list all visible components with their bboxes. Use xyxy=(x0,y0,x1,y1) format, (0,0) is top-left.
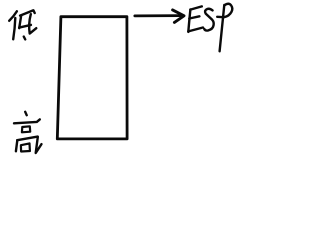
rectangle body xyxy=(57,17,127,139)
arrow shaft wire xyxy=(135,14,180,17)
label 高 (high) right hook stroke xyxy=(36,137,42,153)
label 高 (high) top dot xyxy=(25,112,27,115)
arrow head xyxy=(173,10,184,23)
label 低 (low) bottom dot of 氐 xyxy=(24,37,25,40)
label 低 (low) curved hook stroke of 氐 xyxy=(29,14,36,33)
text ESP letter P xyxy=(217,4,232,52)
text ESP letter S xyxy=(204,9,214,31)
label 低 (low) short vertical of 氐 xyxy=(19,16,21,29)
label 高 (high) outer box top stroke xyxy=(17,137,38,141)
text ESP letter E xyxy=(188,6,203,32)
label 高 (high) small mouth box xyxy=(22,126,30,132)
label 低 (low) top slanted stroke of 氐 xyxy=(20,10,35,15)
label 低 (low) middle horizontal of 氐 xyxy=(19,25,31,28)
label 高 (high) top horizontal stroke xyxy=(14,119,40,123)
label 高 (high) outer box left vertical xyxy=(16,140,17,151)
label 低 (low) person radical vertical stroke xyxy=(13,18,15,39)
label 低 (low) person radical left-falling stroke xyxy=(9,11,17,20)
label 高 (high) inner mouth box xyxy=(21,143,30,151)
